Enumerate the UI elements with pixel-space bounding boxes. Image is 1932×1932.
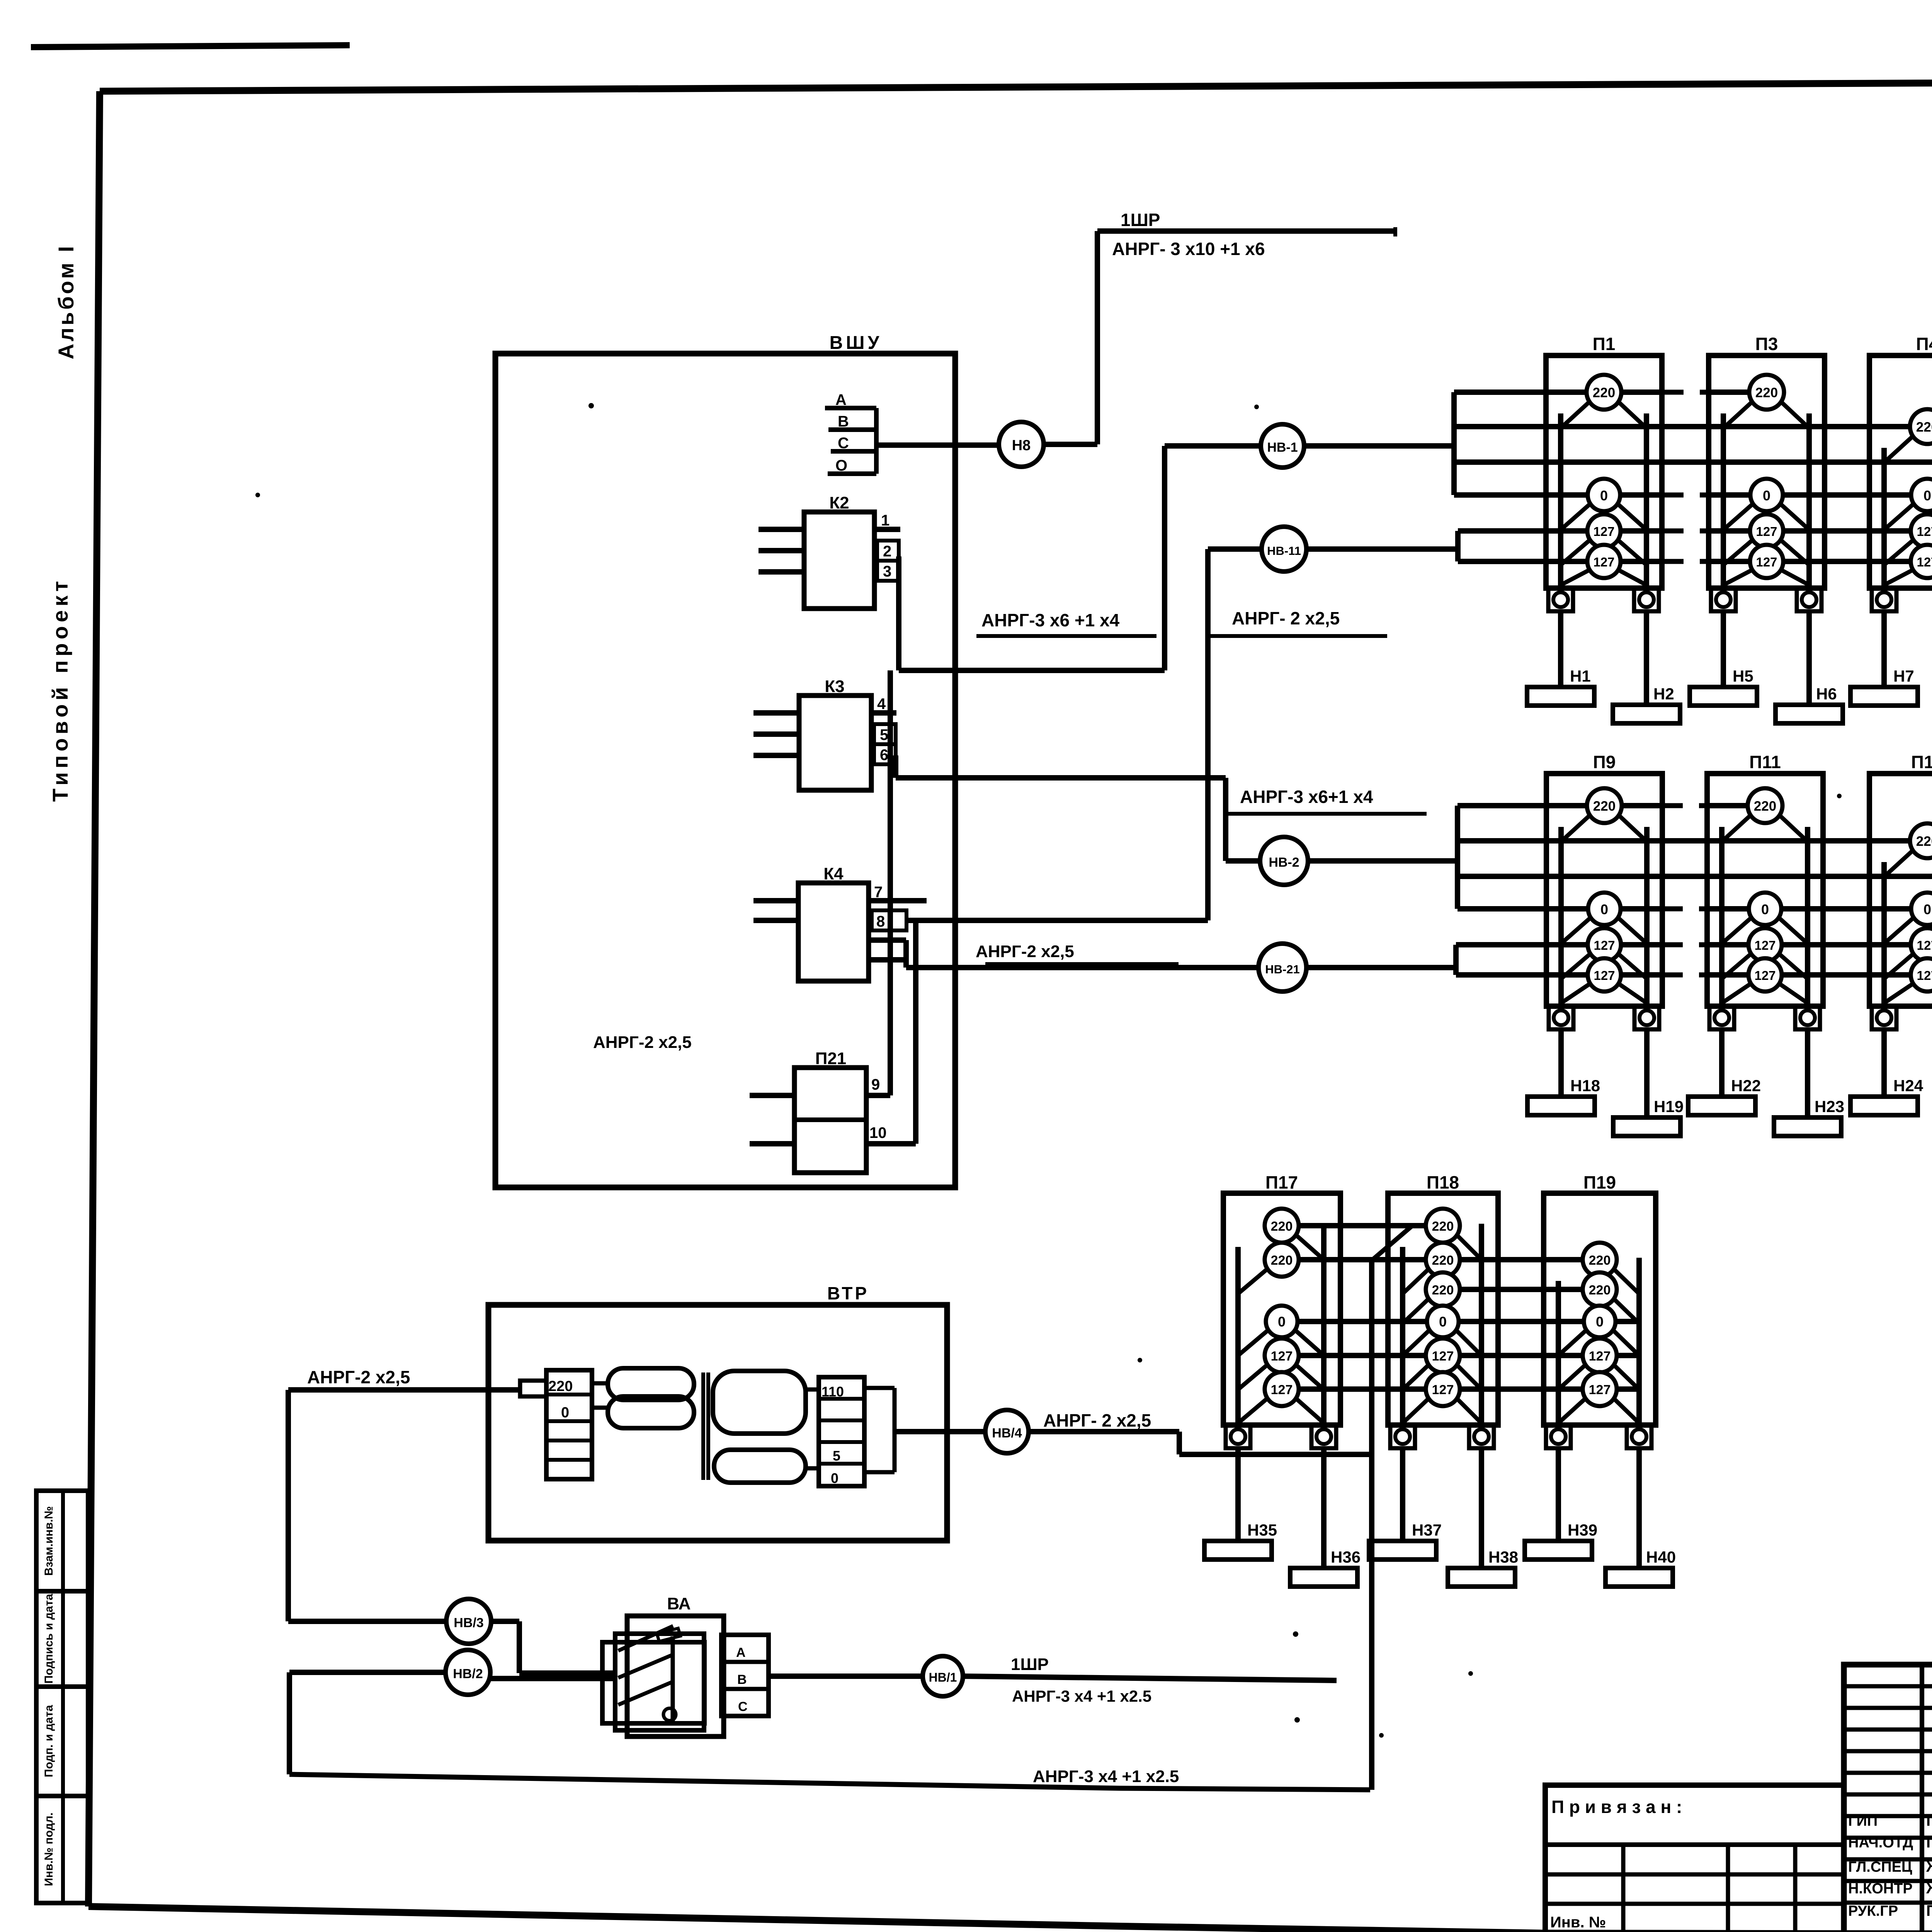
lamp unit П12 220V lamp	[1884, 848, 1916, 877]
lamp unit П3 220V lamp	[1723, 399, 1755, 428]
ground bar Н2	[1613, 705, 1680, 723]
lamp unit П4 box	[1869, 355, 1932, 588]
lamp unit П9 127V lamp a	[1561, 952, 1593, 979]
svg-text:К2: К2	[829, 493, 849, 512]
wire П11 right down to Н23	[1805, 1029, 1810, 1117]
svg-text:Полякова: Полякова	[1926, 1834, 1932, 1851]
svg-text:Н40: Н40	[1646, 1548, 1676, 1566]
svg-text:П4: П4	[1916, 334, 1932, 354]
svg-text:7: 7	[874, 884, 883, 901]
lamp unit П17 lamp 127	[1238, 1396, 1270, 1423]
cable marker N8	[1043, 442, 1097, 447]
svg-text:Альбом I: Альбом I	[54, 244, 78, 359]
lamp unit П1 220V lamp	[1561, 399, 1592, 428]
wire from left to VTR 220 input	[288, 1387, 520, 1393]
bus row2 phase line L1	[1458, 803, 1662, 808]
lamp unit П3 legs	[1721, 413, 1726, 588]
lamp unit П19 legs	[1556, 1281, 1561, 1425]
svg-text:ГЛ.СПЕЦ: ГЛ.СПЕЦ	[1848, 1859, 1912, 1875]
cable marker NV/1	[923, 1656, 963, 1696]
bus row2 phase line L2	[1458, 838, 1932, 844]
lamp unit П19 cable gland right	[1627, 1425, 1651, 1448]
svg-text:127: 127	[1594, 938, 1615, 952]
lamp unit П9 220V lamp	[1561, 813, 1593, 842]
svg-text:5: 5	[880, 726, 888, 743]
svg-text:П9: П9	[1593, 752, 1616, 772]
svg-text:220: 220	[1916, 834, 1932, 849]
svg-text:НВ-1: НВ-1	[1267, 440, 1298, 455]
switch VA terminal block A B C	[721, 1635, 769, 1716]
lamp unit П18 lamp 127	[1403, 1396, 1431, 1423]
wire П17 right down to Н36	[1321, 1447, 1327, 1568]
cable marker NV/2	[446, 1650, 490, 1695]
svg-text:127: 127	[1593, 555, 1614, 569]
wire П19 right down to Н40	[1636, 1447, 1642, 1568]
svg-text:П12: П12	[1911, 752, 1932, 772]
bus row2 127V line Lb	[1456, 972, 1662, 978]
lamp unit П11 220V lamp	[1722, 813, 1753, 842]
relay P21 left stubs	[750, 1093, 794, 1098]
contactor K4 left stubs	[753, 898, 798, 903]
wire П18 right down to Н38	[1479, 1447, 1484, 1568]
terminal block A B C O	[825, 406, 876, 410]
svg-text:Н6: Н6	[1816, 685, 1837, 703]
lamp unit П11 127V lamp b	[1722, 982, 1753, 1003]
contactor K4 lower pins	[869, 937, 906, 943]
svg-text:НВ-11: НВ-11	[1267, 544, 1301, 558]
bus row1 phase line L2	[1454, 424, 1932, 429]
group3 bus M0 neutral	[1282, 1319, 1641, 1324]
ground bar Н37	[1369, 1541, 1436, 1560]
svg-text:Подпись и дата: Подпись и дата	[43, 1594, 55, 1684]
lamp unit П17 lamp 0	[1238, 1328, 1270, 1355]
svg-text:С: С	[838, 435, 849, 452]
lamp unit П9 127V lamp b	[1561, 982, 1593, 1003]
contactor K4 pins 7 8	[869, 898, 927, 903]
svg-text:127: 127	[1589, 1383, 1611, 1397]
lamp unit П4 0 lamp	[1884, 502, 1916, 530]
bus row1 127V line La	[1458, 528, 1662, 534]
wire switch B row to NV/1	[769, 1673, 923, 1679]
svg-text:С: С	[738, 1699, 748, 1714]
svg-text:127: 127	[1754, 938, 1776, 952]
svg-text:В: В	[838, 413, 849, 430]
lamp unit П18 lamp 127	[1403, 1362, 1431, 1389]
svg-text:АНРГ-3 х6 +1 х4: АНРГ-3 х6 +1 х4	[981, 610, 1120, 630]
ground bar Н6	[1776, 705, 1843, 723]
svg-text:АНРГ-3 х6+1 х4: АНРГ-3 х6+1 х4	[1240, 787, 1373, 807]
svg-text:Н5: Н5	[1733, 667, 1753, 685]
wire П17 left down to Н35	[1235, 1447, 1241, 1541]
svg-text:3: 3	[883, 563, 891, 580]
svg-text:10: 10	[869, 1124, 887, 1141]
svg-text:Н39: Н39	[1568, 1521, 1597, 1539]
bus row1 phase line L3	[1454, 459, 1932, 465]
group3 bus M2 220V	[1282, 1257, 1600, 1262]
wire K4 lower pins to NV-21	[903, 940, 909, 968]
bus row1 fan-out bar upper	[1451, 392, 1457, 495]
svg-text:0: 0	[831, 1470, 838, 1486]
lamp unit П17 cable gland left	[1226, 1425, 1250, 1448]
lamp unit П4 127V lamp a	[1884, 538, 1916, 565]
svg-text:Н24: Н24	[1893, 1077, 1923, 1095]
lamp unit П17 lamp 220	[1238, 1267, 1270, 1294]
wire П9 left down to Н18	[1558, 1029, 1564, 1097]
lamp unit П3 box	[1709, 355, 1825, 588]
ground bar Н19	[1613, 1117, 1680, 1136]
svg-text:127: 127	[1917, 555, 1932, 569]
svg-text:220: 220	[1432, 1219, 1454, 1234]
wire NV/3 to switch	[491, 1619, 519, 1624]
svg-text:Инв.№ подл.: Инв.№ подл.	[43, 1813, 55, 1886]
svg-text:П1: П1	[1593, 334, 1616, 354]
svg-text:127: 127	[1432, 1383, 1454, 1397]
lamp unit П1 box	[1546, 355, 1662, 588]
svg-text:220: 220	[1432, 1253, 1454, 1268]
svg-text:127: 127	[1432, 1349, 1454, 1364]
svg-text:НВ/2: НВ/2	[453, 1667, 483, 1681]
svg-text:Н.КОНТР: Н.КОНТР	[1848, 1881, 1913, 1897]
cabinet VTR box	[488, 1305, 947, 1541]
svg-text:НВ-2: НВ-2	[1269, 855, 1299, 870]
bus row2 neutral line L0	[1458, 906, 1662, 912]
cable marker NV/3	[446, 1599, 491, 1644]
bus row1 neutral line L0	[1454, 492, 1662, 498]
svg-text:Инв. №: Инв. №	[1550, 1914, 1606, 1931]
svg-text:127: 127	[1756, 555, 1777, 569]
svg-text:220: 220	[1271, 1219, 1293, 1234]
wire 220 row to primary	[592, 1381, 608, 1386]
svg-text:ВА: ВА	[667, 1594, 690, 1613]
svg-text:АНРГ-2 х2,5: АНРГ-2 х2,5	[976, 942, 1074, 961]
svg-text:Н36: Н36	[1331, 1548, 1361, 1566]
svg-text:ГИП: ГИП	[1848, 1813, 1878, 1829]
svg-text:НВ/1: НВ/1	[929, 1670, 957, 1684]
page border frame	[100, 80, 1932, 91]
output bracket	[864, 1386, 895, 1390]
lamp unit П17 legs	[1235, 1247, 1241, 1425]
lamp unit П4 cable gland left	[1872, 588, 1896, 611]
lamp unit П12 127V lamp a	[1884, 952, 1916, 979]
bus row2 127V line La	[1456, 942, 1662, 947]
cable marker NV/4	[985, 1410, 1029, 1453]
svg-text:П21: П21	[815, 1049, 847, 1068]
lamp unit П11 cable gland left	[1709, 1006, 1734, 1029]
wire П4 left down to Н7	[1881, 611, 1887, 687]
svg-text:127: 127	[1589, 1349, 1611, 1364]
svg-text:Н18: Н18	[1570, 1077, 1600, 1095]
wire П19 left down to Н39	[1556, 1447, 1561, 1541]
cable marker NV-2	[1260, 837, 1308, 885]
ground bar Н38	[1448, 1568, 1515, 1587]
wire K2 output to NV-1	[896, 556, 901, 670]
svg-text:127: 127	[1754, 968, 1776, 983]
svg-text:1ШР: 1ШР	[1011, 1655, 1049, 1674]
svg-text:8: 8	[876, 913, 885, 930]
lamp unit П1 127V lamp b	[1561, 568, 1592, 585]
switch VA blades	[671, 1636, 675, 1723]
lamp unit П12 box	[1869, 774, 1932, 1006]
svg-text:220: 220	[1754, 799, 1776, 814]
ground bar Н40	[1605, 1568, 1673, 1587]
svg-text:Н22: Н22	[1731, 1077, 1761, 1095]
svg-text:127: 127	[1756, 524, 1777, 539]
wire VTR output to NV/4	[895, 1429, 986, 1434]
svg-text:220: 220	[1589, 1283, 1611, 1298]
bus row1 127V line Lb	[1458, 559, 1662, 564]
bus row1 fan-out bar lower	[1455, 531, 1461, 561]
svg-text:П17: П17	[1265, 1172, 1298, 1192]
lamp unit П17 box	[1223, 1193, 1340, 1425]
svg-text:АНРГ- 2 х2,5: АНРГ- 2 х2,5	[1232, 608, 1340, 628]
svg-text:НАЧ.ОТД: НАЧ.ОТД	[1848, 1835, 1913, 1851]
svg-text:Н8: Н8	[1012, 437, 1031, 454]
lamp unit П9 legs	[1558, 827, 1564, 1006]
svg-text:Желудев: Желудев	[1926, 1880, 1932, 1897]
lamp unit П3 127V lamp a	[1723, 538, 1755, 565]
svg-text:Типовой проект: Типовой проект	[48, 577, 72, 802]
bottom cable ANRG-3x4+1x2.5 to group3	[289, 1774, 1370, 1790]
lamp unit П19 lamp 220	[1611, 1296, 1639, 1323]
lamp unit П18 cable gland right	[1469, 1425, 1494, 1448]
wire П3 left down to Н5	[1721, 611, 1726, 687]
lamp unit П4 127V lamp b	[1884, 568, 1916, 585]
lamp unit П3 0 lamp	[1723, 502, 1755, 530]
svg-text:П3: П3	[1755, 334, 1778, 354]
lamp unit П19 cable gland left	[1546, 1425, 1571, 1448]
ground bar Н23	[1774, 1117, 1841, 1136]
svg-text:110: 110	[821, 1384, 844, 1400]
svg-text:220: 220	[1916, 420, 1932, 435]
lamp unit П1 127V lamp a	[1561, 538, 1592, 565]
lamp unit П19 lamp 127	[1558, 1362, 1588, 1389]
svg-text:П18: П18	[1427, 1172, 1459, 1192]
svg-text:Желудев: Желудев	[1926, 1858, 1932, 1875]
wire branch M1 to VA cable vertical	[1372, 1226, 1412, 1260]
svg-text:Н7: Н7	[1893, 667, 1914, 685]
svg-text:Горбачева: Горбачева	[1926, 1812, 1932, 1829]
svg-text:0: 0	[1439, 1314, 1447, 1330]
lamp unit П11 127V lamp a	[1722, 952, 1753, 979]
svg-text:220: 220	[1432, 1283, 1454, 1298]
wire C row to N8	[876, 442, 999, 448]
svg-text:1ШР: 1ШР	[1121, 210, 1160, 230]
title block main stamp	[1844, 1665, 1932, 1932]
svg-text:127: 127	[1594, 968, 1615, 983]
lamp unit П12 127V lamp b	[1884, 982, 1916, 1003]
wire П11 left down to Н22	[1719, 1029, 1725, 1097]
scan dots	[588, 403, 594, 408]
ground bar Н36	[1290, 1568, 1357, 1587]
lamp unit П18 lamp 220	[1454, 1233, 1481, 1260]
svg-text:АНРГ-3 х4 +1 х2.5: АНРГ-3 х4 +1 х2.5	[1012, 1687, 1151, 1705]
svg-text:0: 0	[1596, 1314, 1604, 1330]
svg-text:П19: П19	[1583, 1172, 1616, 1192]
svg-text:0: 0	[1763, 488, 1770, 503]
svg-text:6: 6	[880, 747, 888, 764]
svg-text:НВ/3: НВ/3	[454, 1616, 483, 1630]
svg-text:Н37: Н37	[1412, 1521, 1442, 1539]
lamp unit П19 lamp 220	[1611, 1267, 1639, 1294]
svg-text:0: 0	[1600, 488, 1608, 503]
svg-text:Подп. и дата: Подп. и дата	[43, 1705, 55, 1777]
svg-text:Н1: Н1	[1570, 667, 1591, 685]
ground bar Н5	[1690, 687, 1757, 706]
wire NV/4 to group3	[1029, 1429, 1179, 1434]
VTR output terminal block	[819, 1377, 864, 1486]
lamp unit П4 legs	[1881, 448, 1887, 588]
group3 bus M1 220V	[1282, 1223, 1443, 1228]
lamp unit П4 220V lamp	[1884, 434, 1916, 463]
wire П1 left down to Н1	[1558, 611, 1563, 687]
svg-text:АНРГ- 3 х10 +1 х6: АНРГ- 3 х10 +1 х6	[1112, 239, 1265, 259]
svg-text:0: 0	[1923, 901, 1931, 917]
svg-text:О: О	[835, 457, 847, 474]
svg-text:Прокопчук: Прокопчук	[1926, 1902, 1932, 1919]
relay P21 pin 10	[866, 1141, 916, 1146]
bus row2 fan-out bar lower	[1453, 945, 1459, 975]
svg-text:РУК.ГР: РУК.ГР	[1848, 1903, 1898, 1919]
lamp unit П12 legs	[1881, 862, 1887, 1006]
svg-text:Взам.инв.№: Взам.инв.№	[43, 1506, 55, 1576]
cabinet VShU box	[495, 354, 955, 1187]
wire P21 pin10 up to K4 wire	[913, 920, 918, 1144]
lamp unit П12 cable gland left	[1872, 1006, 1896, 1029]
lamp unit П18 box	[1388, 1193, 1498, 1425]
lamp unit П18 lamp 220	[1403, 1267, 1431, 1294]
svg-text:127: 127	[1917, 938, 1932, 952]
transformer primary winding	[608, 1368, 694, 1400]
lamp unit П11 box	[1707, 774, 1823, 1006]
lamp unit П17 cable gland right	[1311, 1425, 1336, 1448]
transformer secondary winding	[713, 1371, 806, 1434]
lamp unit П9 cable gland right	[1634, 1006, 1659, 1029]
transformer core	[701, 1372, 705, 1480]
ground bar Н35	[1204, 1541, 1272, 1560]
svg-text:К4: К4	[823, 864, 844, 883]
svg-text:5: 5	[833, 1448, 840, 1464]
wire K3 output to NV-2	[893, 755, 898, 778]
lamp unit П9 box	[1546, 774, 1662, 1006]
bus row2 fan-out bar upper	[1455, 806, 1460, 909]
wire NV/2 to switch	[490, 1676, 615, 1681]
cable marker NV-11	[1262, 527, 1306, 571]
svg-text:Н38: Н38	[1488, 1548, 1518, 1566]
lamp unit П18 lamp 220	[1403, 1296, 1431, 1323]
wire П12 left down to Н24	[1881, 1029, 1887, 1097]
lamp unit П1 0 lamp	[1561, 502, 1592, 530]
wire 0 row to primary	[592, 1406, 608, 1410]
svg-text:К3: К3	[825, 677, 844, 696]
contactor K2 pins 1 2 3	[874, 527, 900, 532]
wire П9 right down to Н19	[1644, 1029, 1650, 1117]
lamp unit П3 cable gland left	[1711, 588, 1736, 611]
svg-text:220: 220	[1755, 385, 1778, 400]
left margin stamp boxes	[36, 1491, 88, 1591]
svg-text:Н35: Н35	[1247, 1521, 1277, 1539]
lamp unit П17 lamp 127	[1238, 1362, 1270, 1389]
lamp unit П19 box	[1544, 1193, 1656, 1425]
lamp unit П11 0 lamp	[1722, 916, 1753, 944]
lamp unit П18 legs	[1400, 1247, 1405, 1425]
group3 bus Mb 127V	[1281, 1386, 1641, 1392]
bus row1 phase line L1	[1454, 389, 1662, 395]
relay P21 pin 9	[866, 1093, 890, 1098]
lamp unit П11 legs	[1719, 827, 1725, 1006]
contactor K4 box	[798, 883, 869, 981]
contactor K2 box	[804, 512, 874, 609]
contactor K3 box	[799, 696, 871, 790]
svg-text:127: 127	[1271, 1383, 1293, 1397]
ground bar Н24	[1850, 1097, 1918, 1115]
svg-text:Н19: Н19	[1654, 1097, 1684, 1116]
wire NV/1 to right dead end	[963, 1676, 1337, 1680]
lamp unit П19 lamp 127	[1558, 1396, 1588, 1423]
lamp unit П9 cable gland left	[1549, 1006, 1573, 1029]
lamp unit П18 cable gland left	[1390, 1425, 1415, 1448]
svg-text:0: 0	[1600, 901, 1608, 917]
svg-text:127: 127	[1271, 1349, 1293, 1364]
lamp unit П1 cable gland left	[1548, 588, 1573, 611]
wire NV/2 left down to bottom cable	[289, 1670, 446, 1675]
svg-text:Н2: Н2	[1653, 685, 1674, 703]
svg-text:220: 220	[1593, 385, 1615, 400]
svg-text:127: 127	[1593, 524, 1614, 539]
svg-text:0: 0	[1761, 901, 1769, 917]
lamp unit П9 0 lamp	[1561, 916, 1593, 944]
svg-text:220: 220	[548, 1378, 573, 1395]
wire VShU to NV-21	[955, 965, 1259, 970]
ground bar Н1	[1527, 687, 1594, 706]
svg-text:П11: П11	[1749, 752, 1781, 772]
cable marker NV-21	[1259, 944, 1306, 992]
lamp unit П1 cable gland right	[1634, 588, 1659, 611]
wire secondary to output block	[806, 1388, 819, 1392]
svg-text:2: 2	[883, 543, 891, 560]
wire N8 riser to 1ShR	[1095, 231, 1100, 444]
lamp unit П3 127V lamp b	[1723, 568, 1755, 585]
svg-text:4: 4	[877, 696, 886, 713]
svg-text:ВШУ: ВШУ	[830, 333, 883, 353]
contactor K3 pins 4 5 6	[871, 710, 896, 716]
svg-text:В: В	[737, 1672, 747, 1687]
wire K4 pin8 to NV-11 cable	[906, 918, 1208, 923]
svg-text:А: А	[835, 391, 847, 408]
svg-text:Н23: Н23	[1815, 1097, 1844, 1116]
wire VTR input down to NV/3	[286, 1390, 291, 1621]
wire П3 right down to Н6	[1806, 611, 1812, 705]
lamp unit П3 cable gland right	[1797, 588, 1821, 611]
svg-text:ВТР: ВТР	[827, 1283, 869, 1303]
contactor K3 left stubs	[753, 710, 799, 716]
VTR input terminal block	[520, 1381, 546, 1396]
lamp unit П18 lamp 0	[1403, 1328, 1431, 1355]
svg-text:АНРГ-2 х2,5: АНРГ-2 х2,5	[307, 1367, 410, 1387]
svg-text:А: А	[736, 1645, 746, 1660]
svg-text:1: 1	[881, 512, 889, 529]
svg-text:П р и в я з а н :: П р и в я з а н :	[1551, 1797, 1682, 1817]
svg-text:АНРГ-3 х4 +1 х2.5: АНРГ-3 х4 +1 х2.5	[1033, 1767, 1179, 1786]
svg-text:220: 220	[1589, 1253, 1611, 1268]
group3 bus M3 220V	[1443, 1287, 1600, 1292]
svg-text:0: 0	[1923, 488, 1931, 503]
svg-text:0: 0	[561, 1405, 569, 1421]
svg-text:НВ/4: НВ/4	[992, 1426, 1022, 1440]
ground bar Н7	[1850, 687, 1918, 706]
bus row2 phase line L3	[1458, 874, 1932, 879]
ground bar Н22	[1688, 1097, 1755, 1115]
cable marker NV-1	[1261, 424, 1304, 468]
